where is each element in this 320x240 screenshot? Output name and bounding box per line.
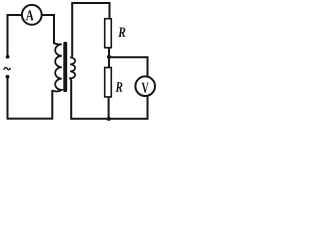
resistor R1 (105, 19, 126, 48)
wire R1 bottom to node (108, 48, 110, 57)
wire voltmeter bottom to bottom rail (71, 80, 147, 119)
transformer core (63, 42, 67, 92)
wire secondary top to resistor R1 (72, 3, 109, 56)
ammeter A (22, 5, 42, 25)
AC source terminal dot bottom (6, 75, 10, 79)
wire R2 bottom to bottom rail (108, 97, 110, 119)
node junction dot (107, 55, 111, 59)
junction dot bottom (107, 117, 111, 121)
wire node to resistor R2 (108, 57, 110, 68)
voltmeter V (135, 76, 155, 96)
transformer primary winding (53, 43, 62, 92)
wire left vertical + top horizontal to ammeter (8, 15, 22, 55)
resistor R2 (105, 68, 123, 97)
AC source terminal dot top (6, 55, 10, 59)
wire node to voltmeter (109, 57, 148, 76)
wire primary bottom to AC source (8, 79, 53, 119)
wire ammeter right to transformer primary top (42, 15, 54, 44)
AC source tilde (4, 68, 11, 70)
transformer secondary winding (70, 55, 75, 80)
